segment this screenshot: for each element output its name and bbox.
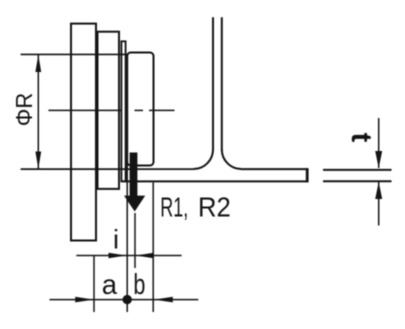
svg-text:i: i (113, 225, 119, 255)
svg-text:ΦR: ΦR (11, 93, 37, 127)
svg-text:a: a (102, 269, 118, 300)
svg-text:R1,: R1, (160, 192, 188, 223)
svg-text:t: t (345, 133, 377, 143)
svg-text:R2: R2 (198, 192, 231, 223)
svg-text:b: b (133, 269, 145, 301)
